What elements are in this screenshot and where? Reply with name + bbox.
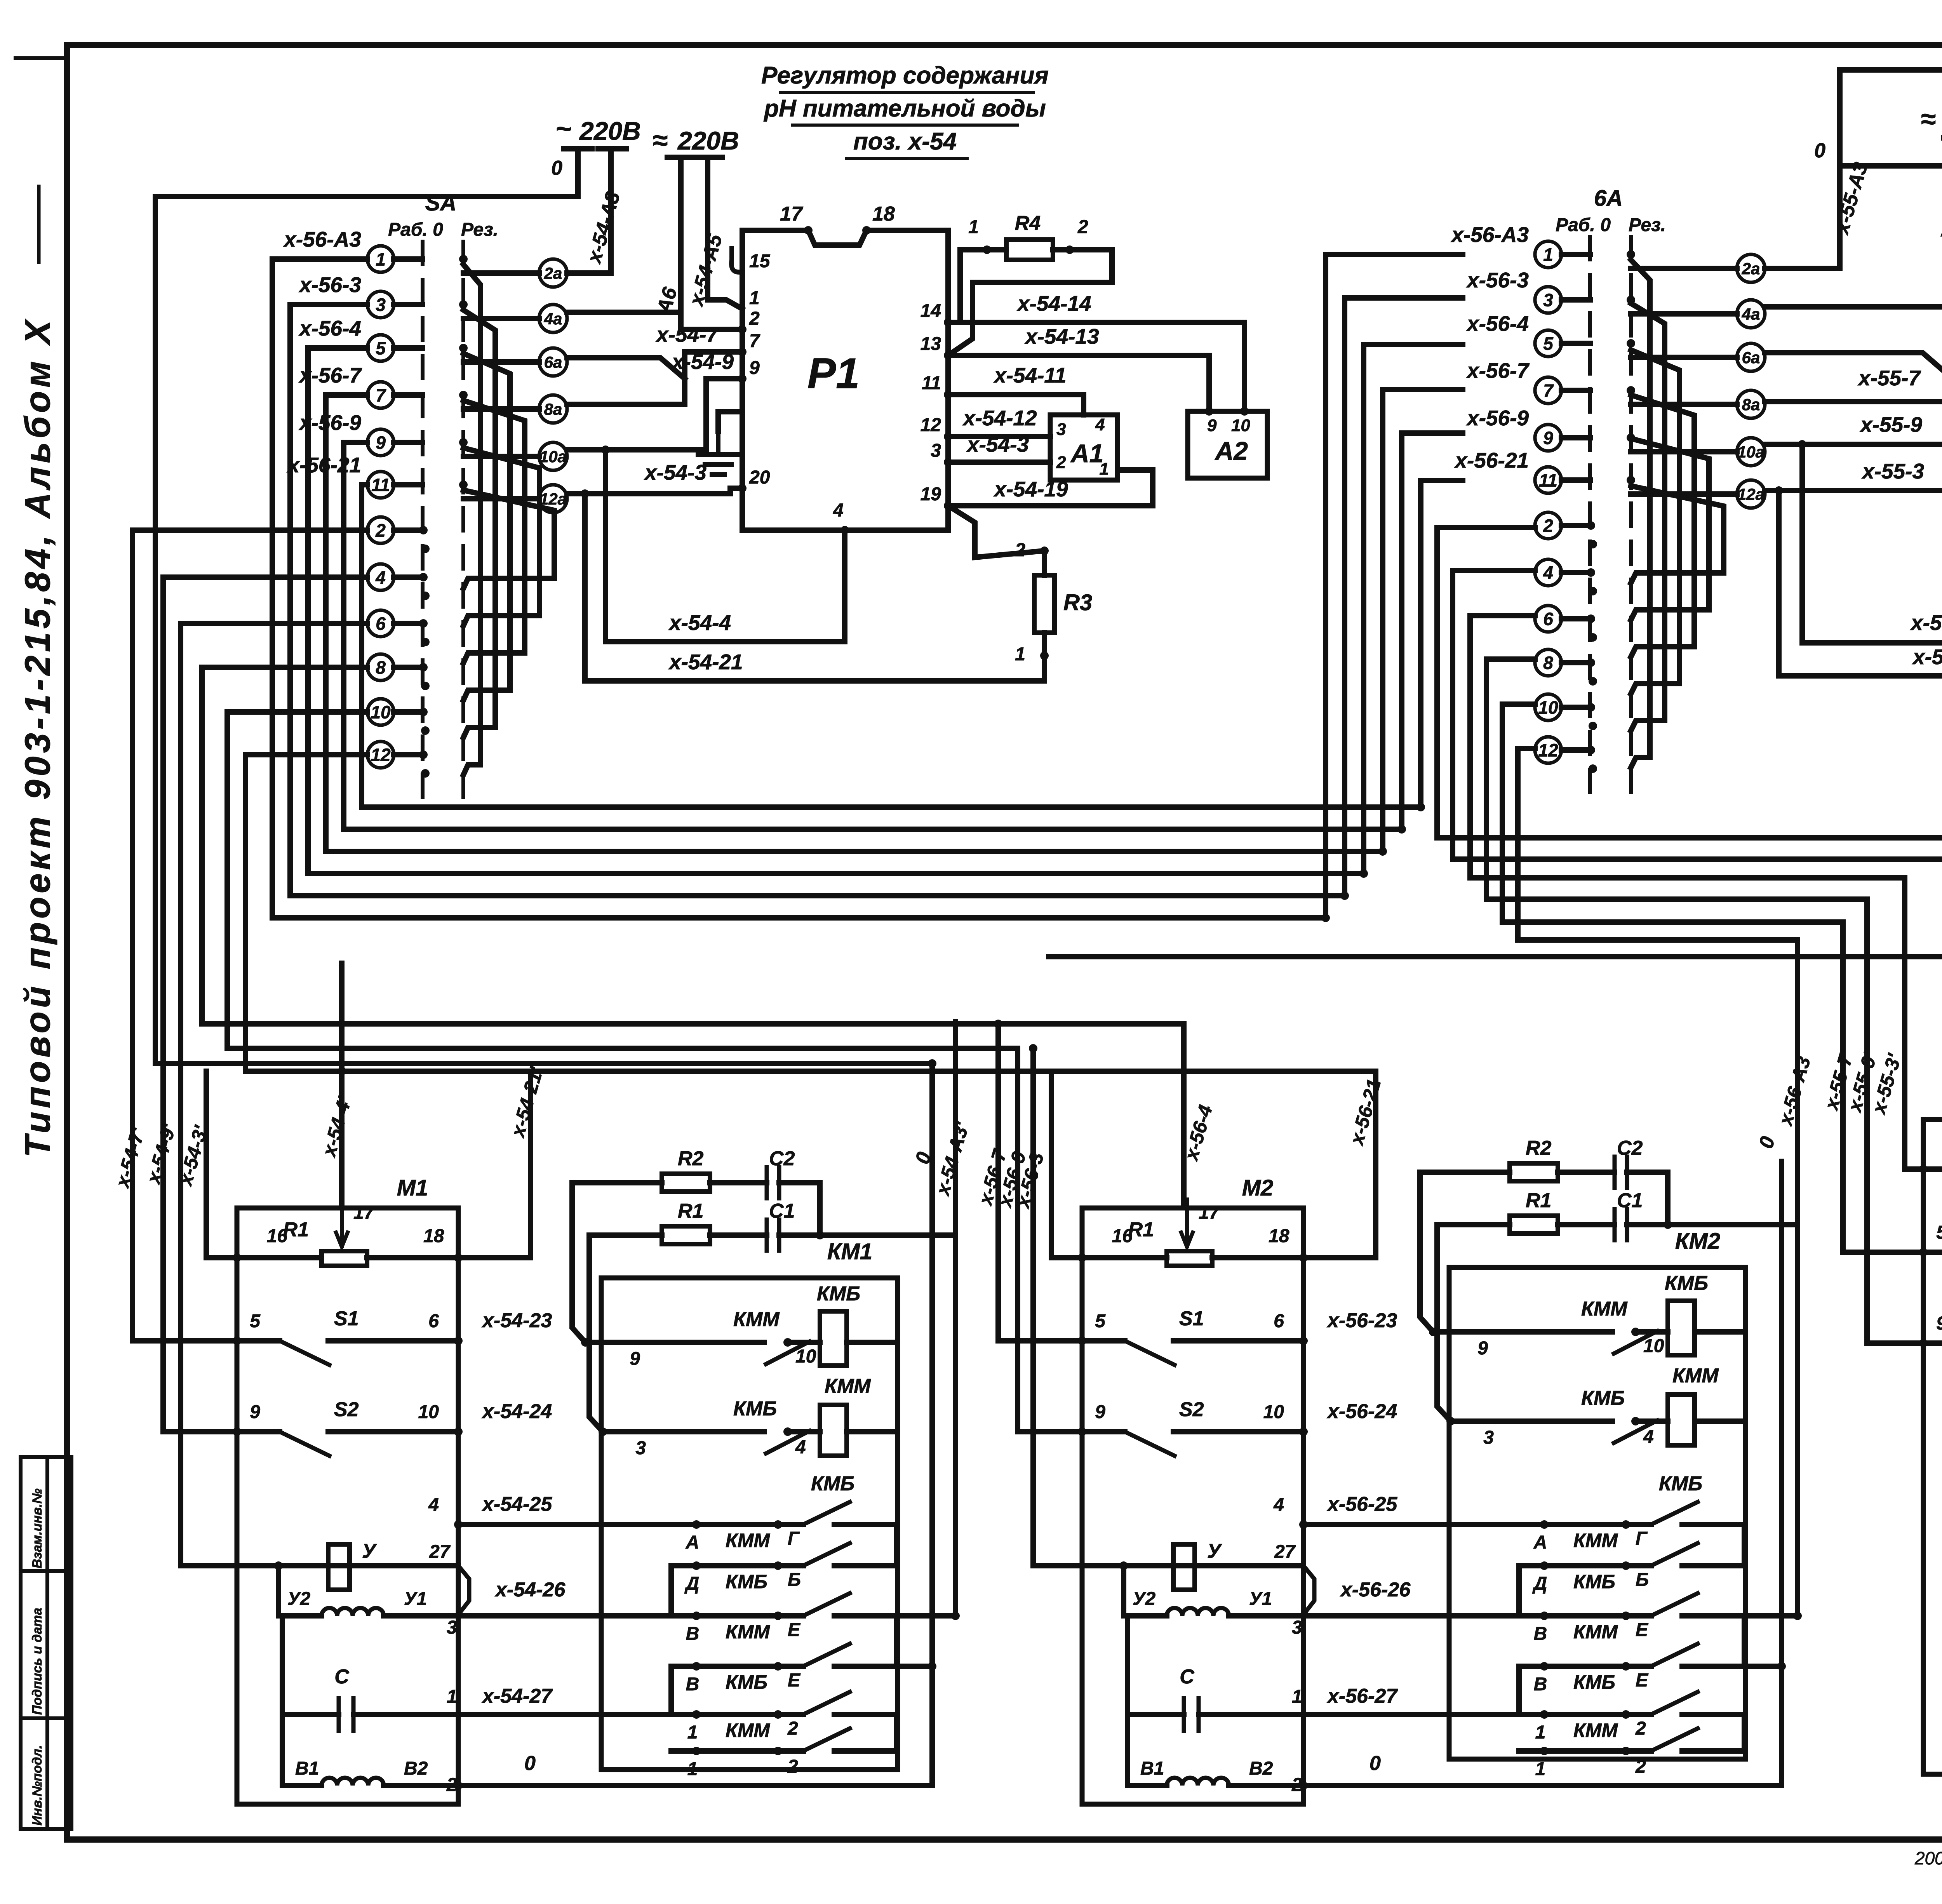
- svg-text:R1: R1: [678, 1200, 703, 1222]
- svg-text:2а: 2а: [1742, 259, 1760, 278]
- svg-text:10: 10: [1263, 1402, 1284, 1422]
- wire x-55-21: [1779, 491, 1942, 676]
- svg-text:6: 6: [428, 1311, 439, 1331]
- svg-text:У: У: [1207, 1540, 1222, 1563]
- svg-text:8: 8: [1543, 653, 1553, 673]
- svg-text:В1: В1: [1140, 1758, 1164, 1779]
- М2 terminal 4 row: [1303, 1522, 1410, 1527]
- svg-text:КМБ: КМБ: [1573, 1571, 1615, 1592]
- svg-text:6а: 6а: [544, 353, 562, 371]
- svg-text:Е: Е: [1636, 1620, 1649, 1640]
- svg-text:6: 6: [1274, 1311, 1284, 1331]
- svg-text:x-56-7: x-56-7: [1466, 359, 1530, 383]
- svg-text:≈: ≈: [1921, 104, 1935, 134]
- svg-text:5: 5: [376, 338, 386, 359]
- КМ1 row КММ contact with КМБ coil: [585, 1311, 898, 1366]
- wire x-55-3 from 12а right: [1765, 468, 1942, 491]
- svg-text:2: 2: [1077, 217, 1088, 237]
- svg-text:9: 9: [749, 358, 760, 378]
- terminal strip SA dashed reserve line: [461, 242, 465, 799]
- terminal 8а: [1631, 390, 1765, 418]
- svg-text:КММ: КММ: [825, 1375, 871, 1398]
- terminal 6А:3: [1535, 287, 1590, 313]
- svg-text:x-56-9: x-56-9: [1466, 406, 1529, 430]
- svg-text:КММ: КММ: [1573, 1720, 1618, 1741]
- КМ2 snubber R2 C2: [1420, 1157, 1668, 1332]
- svg-text:В: В: [686, 1624, 700, 1644]
- wire x-54-19: [948, 470, 1153, 557]
- right 0-line from supply to KM3: [1840, 166, 1942, 1730]
- svg-text:x-54-3: x-54-3: [644, 460, 706, 484]
- wires from SA terminals 2..12 to left verticals: [132, 530, 1376, 1566]
- terminal 4а: [463, 305, 567, 332]
- svg-text:С2: С2: [769, 1147, 795, 1170]
- svg-text:3: 3: [1483, 1427, 1494, 1448]
- potentiometer R1 of М2: [1082, 1199, 1303, 1266]
- svg-text:У: У: [362, 1540, 377, 1563]
- svg-text:4а: 4а: [1742, 305, 1760, 323]
- svg-text:6: 6: [1543, 609, 1553, 629]
- М1 terminal 4 row: [458, 1522, 565, 1527]
- terminal strip SA dashed working line: [421, 242, 425, 799]
- svg-text:pH питательной воды: pH питательной воды: [763, 95, 1046, 122]
- wire x-54-4: [606, 450, 845, 642]
- potentiometer R1 of М3: [1923, 1111, 1942, 1177]
- svg-text:КМБ: КМБ: [817, 1283, 860, 1305]
- svg-text:2: 2: [787, 1718, 798, 1739]
- svg-text:2: 2: [1635, 1718, 1646, 1739]
- svg-text:18: 18: [872, 203, 895, 225]
- svg-text:3: 3: [376, 295, 386, 315]
- potentiometer R1 of М1: [237, 1199, 458, 1266]
- svg-text:КМБ: КМБ: [733, 1398, 777, 1420]
- switch S1 of М2: [1082, 1341, 1303, 1365]
- svg-text:9: 9: [376, 433, 386, 453]
- svg-text:поз. x-54: поз. x-54: [853, 128, 957, 155]
- wire 4а jumper right: [1765, 304, 1942, 310]
- terminal 2а: [463, 259, 567, 287]
- svg-text:7: 7: [376, 385, 386, 406]
- svg-text:12: 12: [371, 745, 391, 765]
- svg-text:1: 1: [1535, 1759, 1546, 1779]
- svg-text:7: 7: [749, 331, 760, 352]
- terminal SA:8: [367, 654, 423, 680]
- wire x-54-3 from 12а: [567, 488, 742, 494]
- svg-text:КММ: КММ: [1581, 1298, 1628, 1320]
- svg-text:220В: 220В: [579, 117, 641, 145]
- wire 6а jumper right: [1765, 353, 1942, 373]
- svg-text:x-54-27: x-54-27: [481, 1685, 553, 1707]
- svg-text:Д: Д: [1532, 1573, 1547, 1594]
- svg-text:x-56-4: x-56-4: [298, 316, 361, 340]
- svg-text:2: 2: [787, 1756, 798, 1777]
- КМ1 row КМБ contact with КММ coil: [603, 1405, 898, 1456]
- svg-text:0: 0: [1369, 1752, 1381, 1775]
- ground: [698, 431, 738, 475]
- terminal SA:1: [367, 246, 423, 272]
- svg-text:С1: С1: [1617, 1189, 1643, 1212]
- wire x-55-4: [1802, 444, 1942, 643]
- svg-text:18: 18: [1269, 1226, 1289, 1246]
- 6A reserve-side staircase hooks: [1631, 260, 1724, 768]
- block А1: [1050, 415, 1117, 480]
- svg-text:19: 19: [921, 484, 941, 505]
- svg-text:17: 17: [1199, 1203, 1220, 1223]
- block А2: [1188, 411, 1267, 478]
- terminal SA:11: [367, 472, 423, 498]
- switch S2 of М3: [1923, 1343, 1942, 1367]
- svg-text:Д: Д: [684, 1573, 700, 1594]
- svg-text:С2: С2: [1617, 1137, 1643, 1159]
- wire 2а to x-55-A3 vertical: [1765, 266, 1840, 271]
- terminal 6А:8: [1535, 649, 1590, 676]
- svg-text:5: 5: [250, 1311, 261, 1331]
- terminal SA:7: [367, 382, 423, 408]
- SA reserve-side staircase hooks: [463, 265, 554, 775]
- svg-text:x-56-21: x-56-21: [1454, 448, 1529, 472]
- terminal SA:2: [367, 517, 423, 543]
- svg-text:Б: Б: [788, 1570, 801, 1590]
- wire 6а jumper: [567, 358, 685, 379]
- svg-text:В: В: [1534, 1624, 1547, 1644]
- svg-text:S2: S2: [1179, 1398, 1204, 1421]
- svg-text:18: 18: [423, 1226, 444, 1246]
- terminal 6А:2: [1535, 512, 1590, 539]
- svg-text:КММ: КММ: [726, 1530, 770, 1551]
- svg-text:8а: 8а: [1742, 395, 1760, 414]
- svg-text:КМБ: КМБ: [726, 1671, 767, 1693]
- terminal SA:5: [367, 335, 423, 361]
- svg-text:4: 4: [1543, 563, 1553, 583]
- svg-text:КМБ: КМБ: [1665, 1272, 1708, 1295]
- svg-text:8а: 8а: [544, 400, 562, 418]
- svg-text:1: 1: [447, 1686, 457, 1707]
- svg-text:0: 0: [1814, 139, 1825, 162]
- motor block М1: [237, 1208, 458, 1804]
- svg-text:6: 6: [376, 614, 386, 634]
- svg-text:5: 5: [1095, 1311, 1106, 1331]
- svg-text:x-54-23: x-54-23: [481, 1309, 552, 1332]
- bottom 0 bus wires: [458, 1730, 1942, 1786]
- svg-text:4: 4: [795, 1437, 806, 1458]
- terminal 2а: [1631, 254, 1765, 282]
- svg-text:17: 17: [780, 203, 803, 225]
- drawing frame border: [16, 56, 67, 60]
- terminal 6А:6: [1535, 606, 1590, 632]
- svg-text:20072-12: 20072-12: [1914, 1848, 1942, 1868]
- svg-text:R4: R4: [1015, 212, 1041, 235]
- svg-text:С: С: [334, 1666, 350, 1688]
- terminal 6А:12: [1535, 737, 1590, 763]
- x-54-A3 0 line junction: [224, 1046, 230, 1051]
- svg-text:x-54-13: x-54-13: [1024, 324, 1099, 348]
- svg-text:М1: М1: [397, 1175, 428, 1201]
- svg-text:x-56-3: x-56-3: [298, 273, 361, 297]
- terminal 10а: [463, 442, 567, 470]
- svg-text:Типовой проект 903-1-215,84,: Типовой проект 903-1-215,84, Альбом Х: [18, 317, 57, 1157]
- bus wires x-56 from SA to 6A (six nested lines): [272, 254, 1463, 922]
- svg-text:Рез.: Рез.: [461, 219, 498, 240]
- wire x-54-12: [948, 434, 1050, 439]
- svg-text:9: 9: [1477, 1338, 1488, 1359]
- svg-text:x-55-21: x-55-21: [1912, 645, 1942, 669]
- svg-text:1: 1: [1543, 245, 1553, 265]
- svg-text:КММ: КММ: [1672, 1364, 1719, 1387]
- terminal 12а: [1631, 480, 1765, 508]
- svg-text:6А: 6А: [1594, 186, 1623, 211]
- svg-text:У1: У1: [404, 1589, 427, 1609]
- svg-text:17: 17: [353, 1203, 375, 1223]
- svg-text:8: 8: [376, 658, 386, 678]
- svg-text:11: 11: [1539, 470, 1557, 491]
- svg-text:R1: R1: [1128, 1218, 1154, 1241]
- svg-text:1: 1: [749, 288, 760, 308]
- svg-text:3: 3: [931, 440, 941, 461]
- svg-text:10а: 10а: [1737, 443, 1765, 461]
- svg-text:x-56-A3: x-56-A3: [1450, 223, 1529, 247]
- svg-text:У2: У2: [1133, 1589, 1156, 1609]
- svg-text:x-56-A3: x-56-A3: [283, 227, 361, 251]
- svg-text:4: 4: [375, 567, 386, 588]
- svg-text:x-54-24: x-54-24: [481, 1400, 552, 1423]
- wire x-54-14: [948, 322, 1244, 411]
- svg-text:x-54-9: x-54-9: [671, 350, 734, 374]
- svg-text:В2: В2: [404, 1758, 428, 1779]
- capacitor С of М2: [1128, 1616, 1303, 1731]
- resistor R4: [1006, 240, 1053, 260]
- КМ1 snubber R1 C1: [589, 1220, 955, 1432]
- svg-text:4: 4: [1095, 415, 1105, 434]
- svg-text:x-54-26: x-54-26: [494, 1579, 566, 1601]
- svg-text:x-54-25: x-54-25: [481, 1493, 552, 1516]
- switch S2 of М1: [237, 1432, 458, 1456]
- svg-text:x-54-19: x-54-19: [993, 477, 1068, 501]
- resistor R3: [1034, 575, 1055, 633]
- terminal SA:4: [367, 564, 423, 590]
- svg-text:5: 5: [1543, 334, 1554, 354]
- svg-text:КМБ: КМБ: [1659, 1472, 1702, 1495]
- svg-text:2а: 2а: [544, 264, 562, 282]
- terminal strip 6А dashed reserve line: [1629, 237, 1633, 795]
- svg-text:9: 9: [1207, 416, 1217, 435]
- svg-text:x-56-25: x-56-25: [1326, 1493, 1397, 1516]
- terminal 6А:11: [1535, 467, 1590, 493]
- svg-text:1: 1: [687, 1722, 698, 1743]
- svg-text:R2: R2: [678, 1147, 704, 1170]
- svg-text:x-55-7: x-55-7: [1857, 366, 1921, 390]
- М1 upper loop wiring: [206, 1071, 531, 1258]
- svg-text:В: В: [1534, 1674, 1547, 1695]
- svg-text:Р1: Р1: [807, 350, 860, 397]
- svg-text:0: 0: [551, 157, 562, 179]
- svg-text:9: 9: [1936, 1313, 1942, 1334]
- svg-text:R2: R2: [1526, 1137, 1552, 1159]
- svg-text:А: А: [1533, 1532, 1547, 1553]
- svg-text:10: 10: [418, 1402, 439, 1422]
- wire x-54-7: [567, 352, 742, 404]
- terminal SA:9: [367, 429, 423, 456]
- svg-text:10: 10: [1643, 1336, 1664, 1356]
- wire R4 terminals: [948, 217, 1112, 355]
- svg-text:Рез.: Рез.: [1629, 215, 1666, 235]
- left stamp column cells: [21, 1457, 71, 1829]
- svg-text:9: 9: [250, 1402, 260, 1422]
- svg-text:Инв.№подл.: Инв.№подл.: [30, 1745, 45, 1826]
- x-54-A3 prime feeder: [953, 1019, 958, 1024]
- svg-text:КМБ: КМБ: [1581, 1387, 1625, 1410]
- switch S1 of М3: [1923, 1252, 1942, 1276]
- terminal SA:3: [367, 291, 423, 318]
- svg-text:12: 12: [921, 415, 941, 435]
- svg-text:13: 13: [921, 334, 941, 354]
- svg-text:10: 10: [1538, 698, 1558, 718]
- svg-text:В1: В1: [295, 1758, 319, 1779]
- svg-text:3: 3: [447, 1617, 457, 1638]
- terminal 10а: [1631, 438, 1765, 466]
- svg-text:Е: Е: [1636, 1670, 1649, 1691]
- svg-text:15: 15: [749, 251, 771, 272]
- svg-text:КМБ: КМБ: [726, 1571, 767, 1592]
- svg-text:4: 4: [1643, 1427, 1654, 1447]
- terminal 6а: [1631, 343, 1765, 371]
- svg-text:КММ: КММ: [1573, 1530, 1618, 1551]
- svg-text:1: 1: [968, 217, 979, 237]
- svg-text:12а: 12а: [1737, 485, 1765, 503]
- svg-text:В: В: [686, 1674, 700, 1695]
- svg-text:М2: М2: [1242, 1175, 1274, 1201]
- svg-text:x-54-11: x-54-11: [993, 363, 1067, 387]
- svg-text:≈: ≈: [653, 125, 667, 155]
- switch S1 of М1: [237, 1341, 458, 1365]
- regulator block Р1: [742, 230, 948, 530]
- wires from 6A terminals 2..12 to M3/KM3 area: [1437, 527, 1942, 1343]
- svg-text:Взам.инв.№: Взам.инв.№: [30, 1488, 45, 1568]
- svg-text:КМБ: КМБ: [811, 1472, 854, 1495]
- svg-text:1: 1: [376, 249, 386, 270]
- svg-text:27: 27: [1274, 1542, 1296, 1562]
- svg-text:1: 1: [1535, 1722, 1546, 1743]
- svg-text:R1: R1: [1526, 1189, 1551, 1212]
- svg-text:R3: R3: [1063, 590, 1092, 615]
- svg-text:У1: У1: [1249, 1589, 1272, 1609]
- svg-text:x-54-7: x-54-7: [655, 322, 719, 346]
- svg-text:4: 4: [833, 500, 844, 521]
- svg-text:x-54-4: x-54-4: [668, 611, 731, 635]
- svg-text:x-56-27: x-56-27: [1326, 1685, 1398, 1707]
- terminal 8а: [463, 395, 567, 423]
- svg-text:Б: Б: [1636, 1570, 1649, 1590]
- svg-text:x-54-14: x-54-14: [1016, 291, 1091, 315]
- svg-text:10: 10: [371, 702, 391, 722]
- КМ2 row КММ contact with КМБ coil: [1433, 1301, 1745, 1355]
- winding В1-В2 of М2: [1128, 1714, 1303, 1786]
- svg-text:20: 20: [749, 467, 770, 488]
- svg-text:КМБ: КМБ: [1573, 1671, 1615, 1693]
- svg-text:x-55-4: x-55-4: [1910, 611, 1942, 635]
- wire x-55-7: [1765, 336, 1942, 402]
- wire x-55-9: [1765, 359, 1942, 444]
- terminal 6А:9: [1535, 425, 1590, 451]
- svg-text:6а: 6а: [1742, 348, 1760, 367]
- switch S2 of М2: [1082, 1432, 1303, 1456]
- svg-text:10а: 10а: [539, 447, 567, 466]
- svg-text:Регулятор содержания: Регулятор содержания: [761, 62, 1049, 89]
- x-56-A3 cable down to KM2: [1782, 1136, 1798, 1786]
- svg-text:1: 1: [1292, 1686, 1302, 1707]
- wire x-54-21: [585, 494, 1044, 681]
- wire x-54-13: [948, 355, 1209, 411]
- wire x-54-3 to A1: [948, 459, 1050, 465]
- svg-text:9: 9: [1543, 428, 1553, 448]
- svg-text:2: 2: [1056, 453, 1066, 472]
- svg-text:КМ2: КМ2: [1675, 1229, 1720, 1254]
- svg-text:Г: Г: [788, 1528, 800, 1549]
- svg-text:12: 12: [1538, 740, 1558, 761]
- svg-text:S1: S1: [1179, 1307, 1204, 1330]
- svg-text:Е: Е: [788, 1670, 801, 1691]
- svg-text:КММ: КММ: [733, 1308, 780, 1331]
- М2 upper loop wiring: [1051, 1071, 1376, 1258]
- motor block М2: [1082, 1208, 1303, 1804]
- terminal SA:12: [367, 741, 423, 768]
- terminal 12а: [463, 485, 567, 513]
- svg-text:R1: R1: [283, 1218, 309, 1241]
- svg-text:14: 14: [921, 301, 941, 321]
- contactor block КМ1: [601, 1278, 898, 1770]
- svg-text:4а: 4а: [544, 310, 562, 328]
- relay У of М1: [278, 1544, 469, 1616]
- wire x-54-9: [567, 379, 742, 450]
- svg-text:1: 1: [687, 1759, 698, 1779]
- svg-text:Е: Е: [788, 1620, 801, 1640]
- terminal 6А:7: [1535, 377, 1590, 404]
- svg-text:S2: S2: [334, 1398, 359, 1421]
- terminal 6А:10: [1535, 694, 1590, 721]
- svg-text:1: 1: [1100, 459, 1109, 479]
- terminal 6А:4: [1535, 559, 1590, 586]
- КМ1 snubber R2 C2: [572, 1167, 820, 1342]
- winding В1-В2 of М1: [282, 1714, 458, 1786]
- terminal 6А:5: [1535, 330, 1590, 357]
- terminal strip 6А dashed working line: [1588, 237, 1592, 795]
- svg-text:А1: А1: [1070, 439, 1103, 468]
- svg-text:x-54-21: x-54-21: [668, 650, 743, 674]
- motor block М3: [1923, 1119, 1942, 1774]
- svg-text:КММ: КММ: [726, 1621, 770, 1643]
- svg-text:x-55-3: x-55-3: [1861, 459, 1924, 483]
- svg-text:9: 9: [630, 1349, 640, 1369]
- svg-text:3: 3: [1056, 420, 1066, 439]
- svg-text:Подпись и дата: Подпись и дата: [30, 1608, 45, 1715]
- svg-text:2: 2: [1635, 1756, 1646, 1777]
- svg-text:А2: А2: [1215, 437, 1248, 465]
- КМ2 snubber R1 C1: [1437, 1209, 1798, 1421]
- svg-text:10: 10: [795, 1346, 816, 1367]
- svg-text:2: 2: [749, 308, 760, 329]
- svg-text:Раб. 0: Раб. 0: [388, 219, 443, 240]
- svg-text:7: 7: [1543, 381, 1554, 401]
- svg-text:5: 5: [1936, 1222, 1942, 1243]
- terminal 6А:1: [1535, 241, 1590, 268]
- svg-text:9: 9: [1095, 1402, 1105, 1422]
- КМ2 row КМБ contact with КММ coil: [1451, 1394, 1745, 1445]
- svg-text:27: 27: [429, 1542, 451, 1562]
- svg-text:2: 2: [1543, 516, 1553, 536]
- svg-text:0: 0: [524, 1752, 536, 1775]
- svg-text:10: 10: [1231, 416, 1250, 435]
- svg-text:Раб. 0: Раб. 0: [1556, 215, 1611, 235]
- svg-text:КММ: КММ: [1573, 1621, 1618, 1643]
